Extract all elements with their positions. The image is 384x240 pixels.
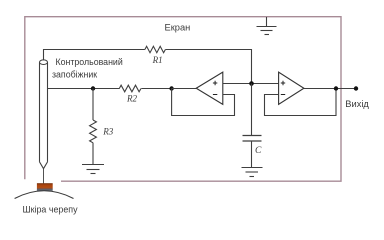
op-amp U2 (right-pointing buffer) (279, 72, 304, 104)
wire: op-amp U2 feedback loop (output to - input) (265, 89, 337, 116)
node main junction (249, 81, 254, 86)
svg-text:C: C (255, 146, 262, 156)
electrode contact pad on scalp (37, 183, 53, 191)
wire: electrode top to R1 (top run y=50) (44, 50, 145, 61)
ground (shield, on top frame edge) (257, 17, 277, 35)
node output terminal (Вихід) (354, 86, 358, 90)
capacitor C (243, 136, 263, 157)
wire: electrode to R2 (run y=88.4) (48, 88, 120, 90)
label Контрольований запобіжник (52, 57, 123, 79)
resistor R3 (90, 89, 114, 143)
electrode: Контрольований запобіжник (40, 60, 48, 183)
svg-text:R3: R3 (102, 127, 113, 137)
node at R3 tap (91, 86, 95, 90)
wire: op-amp U1 feedback loop (output to - input) (172, 89, 235, 116)
shield boundary frame (Екран) (25, 17, 341, 182)
wire: op-amp U1 + input to main node to op-amp U2 + input (223, 83, 279, 85)
wire: R2 to op-amp U1 output node (141, 88, 171, 90)
resistor R2 (119, 85, 141, 104)
label Вихід (345, 99, 369, 109)
svg-text:запобіжник: запобіжник (52, 70, 97, 80)
op-amp U1 (left-pointing buffer) (196, 72, 223, 104)
label Шкіра черепу (23, 204, 79, 214)
svg-text:Вихід: Вихід (345, 99, 369, 109)
resistor R1 (145, 46, 165, 65)
ground (below R3) (82, 143, 104, 174)
svg-text:R1: R1 (152, 55, 163, 65)
wire: R1 to main node (down x=251.8) (165, 50, 251, 84)
ground (below capacitor C) (242, 141, 263, 177)
svg-text:Екран: Екран (165, 22, 191, 32)
svg-text:Контрольований: Контрольований (56, 57, 123, 67)
scalp arc (Шкіра черепу) (15, 191, 74, 199)
wire: op-amp U2 output to output terminal (304, 88, 356, 90)
wire: main node down to capacitor C (251, 84, 253, 136)
wire: node to op-amp U1 output apex (172, 88, 197, 90)
label Екран (165, 22, 191, 32)
node at op-amp U1 output (169, 86, 173, 90)
node at op-amp U2 feedback tap (334, 86, 338, 90)
svg-text:R2: R2 (126, 94, 137, 104)
svg-text:Шкіра черепу: Шкіра черепу (23, 204, 79, 214)
